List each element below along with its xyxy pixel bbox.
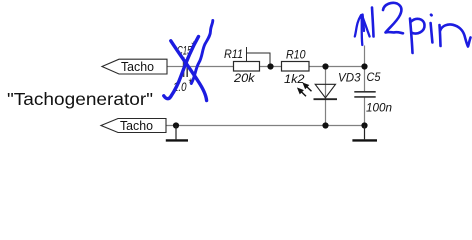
svg-text:Tacho: Tacho xyxy=(121,59,154,74)
svg-text:R10: R10 xyxy=(286,48,306,62)
svg-text:VD3: VD3 xyxy=(338,71,361,85)
svg-text:C5: C5 xyxy=(367,70,381,84)
svg-text:1k2: 1k2 xyxy=(284,72,305,86)
svg-text:100n: 100n xyxy=(366,101,392,115)
svg-text:20k: 20k xyxy=(233,71,256,85)
svg-text:R11: R11 xyxy=(224,47,243,61)
svg-text:"Tachogenerator": "Tachogenerator" xyxy=(7,89,153,109)
svg-text:Tacho: Tacho xyxy=(120,118,153,133)
